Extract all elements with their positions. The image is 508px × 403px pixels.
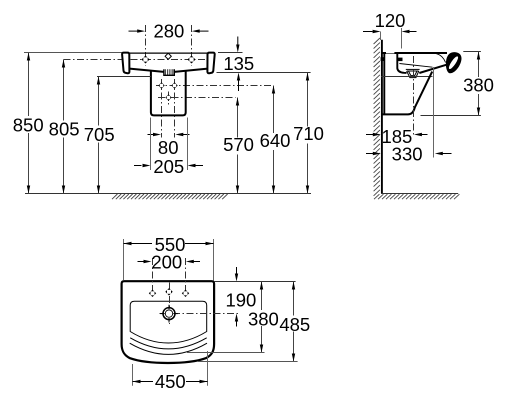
ground line side view (381, 193, 458, 195)
dim 710 vertical (293, 73, 324, 194)
380 plan reference line (187, 352, 265, 354)
side view: drain funnel ribs (406, 69, 420, 77)
dim 135 (217, 37, 311, 92)
svg-text:190: 190 (225, 290, 256, 311)
dash-dot tap hole centerline left (64, 59, 122, 61)
svg-text:710: 710 (293, 123, 324, 144)
svg-text:120: 120 (375, 10, 406, 31)
side view: bowl underside to front (419, 65, 446, 73)
side view: body back edge along wall (383, 53, 385, 114)
plan: inner bowl (130, 301, 207, 343)
dim 570 vertical (223, 98, 254, 194)
basin front view: drain boss ribbed (164, 69, 174, 75)
svg-text:805: 805 (49, 119, 80, 140)
vertical dash-dot trap holes right (174, 79, 176, 138)
svg-text:705: 705 (84, 124, 115, 145)
svg-text:330: 330 (392, 143, 423, 164)
extension line top (rim top to 850) (24, 52, 122, 54)
basin front view: pedestal / trap cover (151, 71, 186, 116)
svg-text:280: 280 (153, 21, 184, 42)
svg-text:135: 135 (223, 53, 254, 74)
705 reference line under basin (97, 76, 151, 78)
dim 185 (366, 126, 428, 147)
tap hole marker center small (front) (165, 53, 171, 59)
plan: front shelf arc 1 (130, 338, 207, 349)
svg-text:850: 850 (13, 114, 44, 135)
dim 485 (279, 282, 311, 362)
vertical dash-dot trap hole center (168, 92, 170, 105)
485 plan reference line (198, 361, 298, 363)
side view: rim top line (381, 52, 447, 54)
vertical dash-dot through right tap hole (191, 25, 193, 66)
plan: top edge extension right (214, 281, 296, 283)
vertical dash-dot through left tap hole (145, 25, 147, 66)
side view: bowl back wall (397, 54, 406, 73)
trap fixing hole marker lower (165, 94, 171, 100)
plan: front shelf arc 2 (130, 343, 207, 354)
dim 380 side (421, 52, 495, 116)
dim 205 (134, 156, 203, 177)
tap hole marker left (front) (142, 56, 150, 64)
side view: rim top notch (white) (386, 52, 394, 54)
basin front view: bottom edge right (174, 69, 208, 72)
dim 850 vertical (13, 53, 44, 194)
plan: dash-dot vertical center (169, 283, 171, 325)
dim 450 (133, 351, 208, 392)
side view: shroud slant and bottom (382, 72, 432, 115)
dim 190 (225, 267, 256, 327)
svg-text:205: 205 (153, 156, 184, 177)
dash-dot fixing holes line upper (640 ref) (156, 85, 271, 87)
dash-dot fixing hole line lower (570 ref) (158, 97, 236, 99)
svg-text:570: 570 (223, 134, 254, 155)
side view: bowl interior thin line (399, 64, 432, 68)
wall hatch (374, 38, 380, 196)
tap hole marker right (front) (188, 56, 196, 64)
side view: under-bowl line (381, 76, 433, 78)
plan tap hole marker left (149, 290, 156, 297)
dim 805 vertical (49, 60, 80, 194)
trap fixing hole marker left (158, 82, 164, 88)
svg-text:80: 80 (158, 137, 179, 158)
dim 705 vertical (84, 77, 115, 194)
dim 120 (363, 10, 417, 49)
plan: dash-dot vertical through left tap (152, 258, 154, 298)
dim 200 (138, 252, 201, 273)
extension lines 205 (150, 118, 152, 171)
ground hatch side view (374, 194, 459, 199)
dim 380 plan (247, 282, 279, 353)
side view: front rim blob (446, 52, 462, 73)
ground line front view (25, 193, 311, 195)
svg-text:450: 450 (155, 371, 186, 392)
trap fixing hole marker right (171, 82, 177, 88)
side view: fixing lug right (397, 58, 403, 62)
side view: rim inner curve near front (437, 54, 446, 63)
basin front view: bottom edge left (130, 69, 164, 72)
plan tap hole marker right (182, 290, 189, 297)
dim 550 (124, 234, 214, 281)
plan tap hole marker center (165, 288, 172, 295)
plan: dash-dot horizontal drain (160, 313, 240, 315)
plan: dash-dot vertical through right tap (185, 258, 187, 298)
basin front view: right rim end (207, 53, 214, 74)
svg-text:485: 485 (279, 314, 310, 335)
extension line 330 (front of body) (433, 67, 435, 158)
dim 640 vertical (260, 86, 291, 194)
side view: fixing lug left (381, 57, 385, 61)
plan: drain circle outer (163, 308, 175, 320)
svg-text:380: 380 (248, 309, 279, 330)
side view: drain centerline dash-dot (413, 56, 415, 137)
plan: drain ticks (160, 305, 178, 323)
dash-dot tap hole centerline inside basin (131, 59, 206, 61)
svg-text:640: 640 (260, 130, 291, 151)
svg-text:200: 200 (151, 252, 182, 273)
basin front view: rim top line (129, 52, 208, 54)
ground hatch front view (112, 194, 228, 199)
svg-text:380: 380 (463, 74, 494, 95)
dim 80 (148, 133, 190, 158)
basin front view: left rim end (122, 53, 129, 74)
plan: drain circle inner (165, 310, 172, 317)
dim 330 (366, 143, 452, 164)
dim 280 (129, 21, 209, 42)
wall line (381, 40, 383, 193)
vertical dash-dot trap holes left (161, 79, 163, 138)
plan: outer outline (122, 281, 215, 363)
